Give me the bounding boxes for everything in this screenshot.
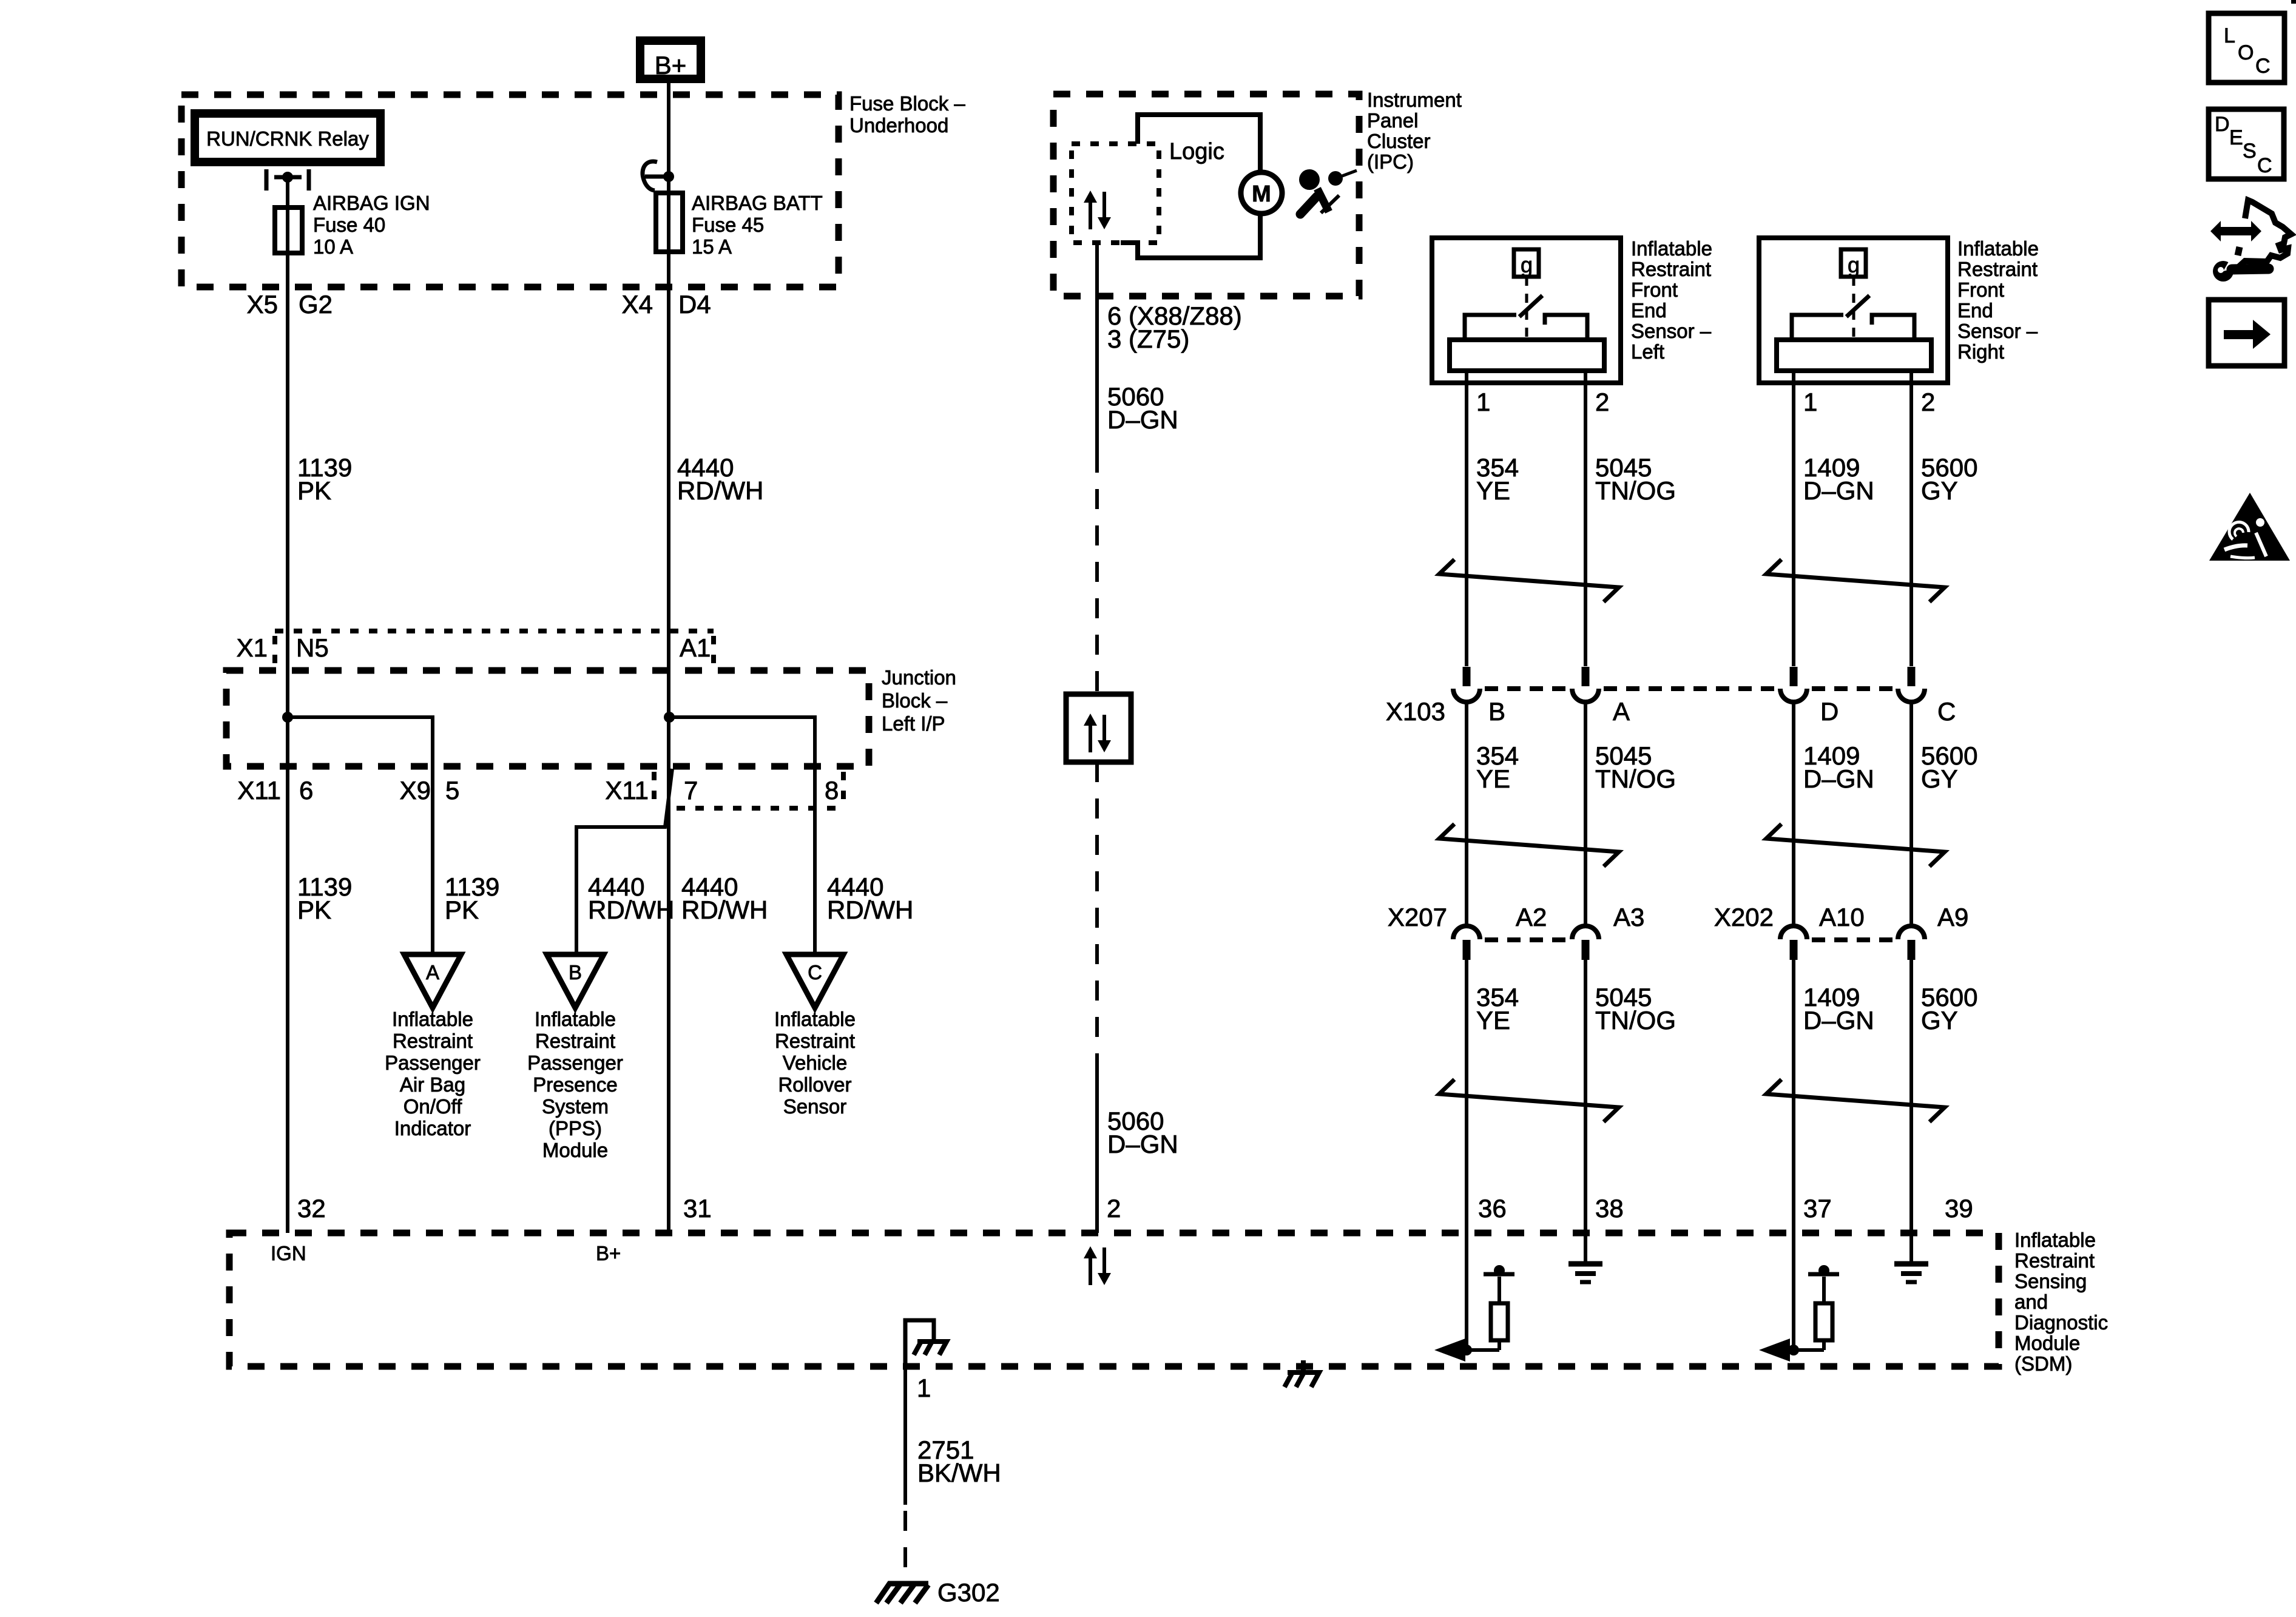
svg-text:Presence: Presence	[533, 1073, 617, 1096]
svg-text:31: 31	[683, 1194, 712, 1223]
svg-text:D–GN: D–GN	[1803, 765, 1874, 793]
svg-text:RD/WH: RD/WH	[588, 896, 674, 924]
svg-text:and: and	[2014, 1291, 2048, 1313]
svg-text:Rollover: Rollover	[778, 1073, 851, 1096]
svg-text:1: 1	[1476, 388, 1490, 416]
svg-text:Passenger: Passenger	[385, 1052, 481, 1074]
svg-text:X207: X207	[1388, 903, 1447, 931]
pin 37	[1803, 1194, 1832, 1223]
icon LOC box	[2209, 13, 2284, 83]
svg-text:A2: A2	[1516, 903, 1547, 931]
svg-text:7: 7	[684, 776, 698, 805]
twisted pair row1 left	[1439, 559, 1619, 602]
wire 1409 D-GN seg1	[1792, 371, 1795, 666]
wire 354 YE seg3	[1465, 960, 1468, 1233]
wire branch to pin 8	[669, 717, 815, 954]
logic block outline	[1121, 115, 1260, 258]
svg-text:X103: X103	[1386, 697, 1445, 726]
svg-text:M: M	[1252, 181, 1271, 207]
svg-text:End: End	[1957, 299, 1993, 322]
svg-text:RD/WH: RD/WH	[827, 896, 913, 924]
svg-text:2: 2	[1921, 388, 1935, 416]
wire label 4440 RD/WH rollover	[827, 873, 913, 924]
wire 1409 D-GN seg2	[1792, 702, 1795, 927]
connector X207 pin A2	[1453, 926, 1480, 960]
label PPS module B	[527, 1008, 623, 1161]
sensor left g-sensor box	[1514, 249, 1539, 277]
wire 354 YE seg1	[1465, 371, 1468, 666]
wire label 1409 D-GN row2	[1803, 741, 1874, 793]
pin 1	[917, 1374, 931, 1402]
off-page triangle C	[786, 954, 843, 1008]
svg-text:A: A	[1613, 697, 1630, 726]
connector X207 interface line	[1485, 937, 1567, 942]
connector X202 pin A10	[1780, 926, 1807, 960]
icon DESC box	[2209, 109, 2284, 179]
relay output contact symbol	[266, 169, 309, 191]
IPC inner connector dashed box	[1072, 144, 1159, 243]
svg-text:X5: X5	[247, 290, 278, 319]
svg-text:Restraint: Restraint	[1957, 258, 2038, 280]
serial data arrows SDM	[1084, 1246, 1111, 1285]
wire label 5060 D-GN upper	[1107, 382, 1178, 434]
node IGN	[271, 1242, 306, 1264]
wire label 5600 GY row2	[1921, 741, 1977, 793]
svg-text:D–GN: D–GN	[1107, 1130, 1178, 1158]
off-page triangle B	[547, 954, 604, 1008]
wire fuse 40 to X5	[286, 253, 289, 1233]
label X202 A10 A9	[1714, 903, 1968, 931]
svg-text:Fuse Block –: Fuse Block –	[849, 92, 965, 115]
svg-text:Logic: Logic	[1169, 139, 1224, 164]
svg-text:Underhood: Underhood	[849, 114, 948, 137]
icon forward arrow box	[2209, 300, 2284, 366]
wire label 5600 GY row3	[1921, 983, 1977, 1035]
pin 31	[683, 1194, 712, 1223]
label sensor right	[1957, 237, 2039, 363]
pin X4 D4	[622, 290, 711, 319]
pin X5 G2	[247, 290, 333, 319]
svg-text:S: S	[2243, 140, 2257, 163]
svg-text:YE: YE	[1476, 476, 1510, 505]
svg-text:On/Off: On/Off	[403, 1095, 462, 1118]
svg-text:X1: X1	[237, 633, 268, 662]
svg-text:Panel: Panel	[1367, 109, 1418, 132]
svg-text:C: C	[2257, 154, 2272, 177]
off-page triangle A	[404, 954, 461, 1008]
svg-text:Restraint: Restraint	[1631, 258, 1711, 280]
svg-text:E: E	[2229, 126, 2243, 149]
svg-text:Air Bag: Air Bag	[400, 1073, 465, 1096]
wire 5600 GY seg2	[1909, 702, 1913, 927]
connector X207 pin A3	[1572, 926, 1599, 960]
wire 2751 BK/WH	[903, 1366, 907, 1585]
sensor right switch	[1792, 277, 1914, 340]
junction block dashed box	[226, 670, 869, 766]
wire branch to X9	[288, 717, 433, 954]
wire pin 36 internal	[1465, 1233, 1468, 1350]
svg-text:B+: B+	[596, 1242, 621, 1264]
svg-text:Passenger: Passenger	[527, 1052, 623, 1074]
svg-text:g: g	[1521, 252, 1533, 277]
svg-text:G302: G302	[937, 1578, 1000, 1607]
svg-text:N5: N5	[296, 633, 329, 662]
wire label 5045 TN/OG row3	[1595, 983, 1676, 1035]
svg-text:Inflatable: Inflatable	[1631, 237, 1712, 260]
svg-text:L: L	[2224, 24, 2235, 47]
svg-text:D4: D4	[678, 290, 711, 319]
svg-text:1: 1	[1803, 388, 1817, 416]
dashed wire upper	[1095, 453, 1099, 694]
label rollover sensor C	[774, 1008, 856, 1118]
svg-text:39: 39	[1945, 1194, 1973, 1223]
svg-text:C: C	[2255, 55, 2271, 78]
svg-text:Sensing: Sensing	[2014, 1270, 2087, 1292]
twisted pair row2 left	[1439, 824, 1619, 866]
svg-text:X4: X4	[622, 290, 653, 319]
svg-text:RD/WH: RD/WH	[677, 476, 763, 505]
twisted pair row3 right	[1766, 1079, 1945, 1122]
sensor right g-sensor box	[1841, 249, 1866, 277]
sensor right pin 2	[1921, 388, 1935, 416]
connector X103 pin C	[1898, 667, 1925, 702]
wire IPC pin 6	[1095, 243, 1099, 453]
svg-text:Inflatable: Inflatable	[1957, 237, 2039, 260]
pin X1 N5	[237, 633, 329, 662]
svg-text:D–GN: D–GN	[1803, 476, 1874, 505]
svg-text:Restraint: Restraint	[393, 1030, 473, 1052]
svg-text:TN/OG: TN/OG	[1595, 765, 1676, 793]
sensor left element bar	[1450, 340, 1604, 371]
corner mark	[2291, 0, 2296, 4]
svg-text:O: O	[2238, 41, 2254, 64]
wire label 1139 PK upper	[297, 453, 352, 505]
pin 39	[1945, 1194, 1973, 1223]
node junction on B+ wire	[664, 712, 675, 723]
wire label 354 YE row3	[1476, 983, 1519, 1035]
sensor left switch	[1465, 277, 1587, 340]
svg-text:Module: Module	[2014, 1332, 2080, 1354]
connector X103 pin D	[1780, 667, 1807, 702]
wire B+ to fuse 45	[667, 83, 670, 193]
label X207 A2 A3	[1388, 903, 1644, 931]
svg-text:32: 32	[297, 1194, 326, 1223]
IPC instrument panel cluster dashed box	[1053, 94, 1359, 296]
svg-text:C: C	[808, 961, 822, 984]
wire label 1409 D-GN row3	[1803, 983, 1874, 1035]
driver circuit pin 37	[1759, 1265, 1839, 1362]
label AIRBAG BATT Fuse 45 15 A	[692, 192, 823, 258]
svg-text:Inflatable: Inflatable	[535, 1008, 616, 1030]
wire 5600 GY seg3	[1909, 960, 1913, 1233]
svg-text:Block –: Block –	[882, 689, 948, 712]
sensor left pin 2	[1595, 388, 1609, 416]
svg-text:Inflatable: Inflatable	[392, 1008, 473, 1030]
svg-text:TN/OG: TN/OG	[1595, 1006, 1676, 1035]
connector X202 pin A9	[1898, 926, 1925, 960]
svg-text:YE: YE	[1476, 765, 1510, 793]
svg-text:Left: Left	[1631, 340, 1664, 363]
fuse F40 AIRBAG IGN	[275, 208, 302, 253]
connector X103 pin B	[1453, 667, 1480, 702]
svg-text:(IPC): (IPC)	[1367, 150, 1414, 173]
wire label 4440 RD/WH upper	[677, 453, 763, 505]
svg-text:AIRBAG IGN: AIRBAG IGN	[313, 192, 430, 214]
svg-text:Inflatable: Inflatable	[2014, 1229, 2096, 1251]
svg-text:B: B	[1488, 697, 1505, 726]
ground pin 39 internal	[1894, 1233, 1928, 1282]
svg-text:Sensor: Sensor	[783, 1095, 847, 1118]
svg-text:RUN/CRNK Relay: RUN/CRNK Relay	[206, 127, 369, 150]
svg-text:GY: GY	[1921, 765, 1958, 793]
svg-text:A9: A9	[1937, 903, 1968, 931]
svg-text:Left I/P: Left I/P	[882, 712, 945, 735]
connector X103 pin A	[1572, 667, 1599, 702]
airbag warning icon	[1299, 169, 1357, 214]
sensor left box	[1432, 238, 1621, 383]
svg-text:PK: PK	[297, 476, 331, 505]
label AIRBAG IGN Fuse 40 10 A	[313, 192, 430, 258]
wire to SDM pin 2	[1095, 1059, 1099, 1233]
svg-text:38: 38	[1595, 1194, 1624, 1223]
icon caution triangle	[2209, 493, 2290, 561]
wire label 4440 RD/WH pps	[588, 873, 674, 924]
wire pin 37 internal	[1792, 1233, 1795, 1350]
icon schematic navigation	[2210, 200, 2291, 282]
svg-text:(SDM): (SDM)	[2014, 1352, 2072, 1375]
label X103 B A D C	[1386, 697, 1956, 726]
wire 5045 TN/OG seg2	[1584, 702, 1587, 927]
wire label 1139 PK branch	[445, 873, 499, 924]
wire label 354 YE row1	[1476, 453, 1519, 505]
wire label 5600 GY row1	[1921, 453, 1977, 505]
svg-text:TN/OG: TN/OG	[1595, 476, 1676, 505]
pin X11 6	[237, 776, 313, 805]
connector X202 interface line	[1812, 937, 1893, 942]
node B+	[596, 1242, 621, 1264]
connector band X11 lower dotted	[654, 772, 843, 808]
wire label 4440 RD/WH main	[681, 873, 768, 924]
svg-text:(PPS): (PPS)	[549, 1117, 602, 1139]
pin X11 7	[605, 776, 698, 805]
svg-text:A: A	[426, 961, 439, 984]
svg-text:Front: Front	[1957, 279, 2004, 301]
svg-text:End: End	[1631, 299, 1667, 322]
svg-text:PK: PK	[445, 896, 479, 924]
wire label 5045 TN/OG row2	[1595, 741, 1676, 793]
wire 354 YE seg2	[1465, 702, 1468, 927]
twisted pair row3 left	[1439, 1079, 1619, 1122]
label Junction Block - Left I/P	[882, 666, 956, 735]
pin 2	[1107, 1194, 1121, 1223]
sensor right pin 1	[1803, 388, 1817, 416]
svg-text:D–GN: D–GN	[1803, 1006, 1874, 1035]
fuse F45 AIRBAG BATT	[656, 193, 683, 252]
svg-text:D–GN: D–GN	[1107, 405, 1178, 434]
svg-text:Vehicle: Vehicle	[783, 1052, 847, 1074]
dashed wire lower	[1095, 762, 1099, 1059]
ground G302	[876, 1578, 1000, 1607]
svg-text:PK: PK	[297, 896, 331, 924]
wire relay to fuse 40	[286, 177, 289, 208]
svg-text:Sensor –: Sensor –	[1957, 320, 2038, 342]
svg-text:YE: YE	[1476, 1006, 1510, 1035]
svg-text:Restraint: Restraint	[535, 1030, 615, 1052]
pin 36	[1478, 1194, 1507, 1223]
sensor right element bar	[1777, 340, 1931, 371]
pin A1	[680, 633, 711, 662]
svg-text:BK/WH: BK/WH	[917, 1459, 1001, 1487]
svg-text:10 A: 10 A	[313, 235, 353, 258]
ground pin 38 internal	[1568, 1233, 1602, 1282]
wire label 354 YE row2	[1476, 741, 1519, 793]
svg-text:X11: X11	[605, 776, 649, 805]
svg-text:Instrument: Instrument	[1367, 89, 1462, 111]
pin 32	[297, 1194, 326, 1223]
label Fuse Block - Underhood	[849, 92, 965, 137]
svg-text:Indicator: Indicator	[394, 1117, 471, 1139]
label SDM	[2014, 1229, 2108, 1375]
relay RUN/CRNK label box	[195, 113, 380, 162]
svg-text:C: C	[1937, 697, 1956, 726]
svg-text:A3: A3	[1613, 903, 1644, 931]
pin 8	[825, 776, 839, 805]
svg-text:Fuse 40: Fuse 40	[313, 214, 385, 236]
wire 5600 GY seg1	[1909, 371, 1913, 666]
driver circuit pin 36	[1434, 1265, 1514, 1362]
in-line connector arrow box	[1066, 694, 1131, 762]
svg-text:Front: Front	[1631, 279, 1678, 301]
wire label 1409 D-GN row1	[1803, 453, 1874, 505]
svg-text:Cluster: Cluster	[1367, 130, 1431, 152]
svg-text:X11: X11	[237, 776, 281, 805]
svg-text:2: 2	[1595, 388, 1609, 416]
svg-text:A10: A10	[1819, 903, 1865, 931]
connector band X1 N5 A1	[275, 631, 714, 667]
svg-text:Right: Right	[1957, 340, 2004, 363]
svg-text:6: 6	[299, 776, 313, 805]
sensor left pin 1	[1476, 388, 1490, 416]
fuse block underhood dashed box	[181, 95, 839, 287]
svg-text:Sensor –: Sensor –	[1631, 320, 1712, 342]
svg-text:G2: G2	[299, 290, 333, 319]
wire 1409 D-GN seg3	[1792, 960, 1795, 1233]
svg-text:37: 37	[1803, 1194, 1832, 1223]
svg-text:A1: A1	[680, 633, 711, 662]
svg-text:Module: Module	[542, 1139, 608, 1161]
svg-text:GY: GY	[1921, 476, 1958, 505]
twisted pair row2 right	[1766, 824, 1945, 866]
svg-text:B+: B+	[655, 51, 687, 79]
svg-text:RD/WH: RD/WH	[681, 896, 768, 924]
svg-text:IGN: IGN	[271, 1242, 306, 1264]
svg-text:Restraint: Restraint	[2014, 1249, 2095, 1272]
wire fuse 45 to X4	[667, 252, 670, 1233]
wire label 1139 PK left	[297, 873, 352, 924]
svg-text:Diagnostic: Diagnostic	[2014, 1311, 2108, 1334]
pin X9 5	[400, 776, 460, 805]
svg-text:15 A: 15 A	[692, 235, 732, 258]
label Logic	[1169, 139, 1224, 164]
serial data arrows IPC	[1084, 191, 1111, 229]
svg-text:System: System	[542, 1095, 609, 1118]
chassis ground internal SDM	[905, 1320, 947, 1366]
svg-text:1: 1	[917, 1374, 931, 1402]
node junction on IGN wire	[282, 712, 293, 723]
wire label 5060 D-GN lower	[1107, 1107, 1178, 1158]
connector X103 interface line	[1485, 686, 1893, 691]
chassis ground on SDM edge	[1285, 1360, 1319, 1387]
svg-text:3 (Z75): 3 (Z75)	[1107, 325, 1189, 353]
svg-text:Inflatable: Inflatable	[774, 1008, 856, 1030]
label Instrument Panel Cluster (IPC)	[1367, 89, 1462, 173]
svg-text:X9: X9	[400, 776, 431, 805]
twisted pair row1 right	[1766, 559, 1945, 602]
svg-text:36: 36	[1478, 1194, 1507, 1223]
B+ power symbol	[640, 41, 701, 79]
pin 6 (X88/Z88) 3 (Z75)	[1107, 302, 1242, 353]
wire label 5045 TN/OG row1	[1595, 453, 1676, 505]
sensor right box	[1759, 238, 1948, 383]
wire 5045 TN/OG seg3	[1584, 960, 1587, 1233]
fusible link hook symbol	[643, 161, 674, 191]
svg-text:8: 8	[825, 776, 839, 805]
svg-text:AIRBAG BATT: AIRBAG BATT	[692, 192, 823, 214]
pin 38	[1595, 1194, 1624, 1223]
svg-text:B: B	[569, 961, 582, 984]
wire label 2751 BK/WH	[917, 1436, 1001, 1487]
label indicator A	[385, 1008, 481, 1139]
svg-text:GY: GY	[1921, 1006, 1958, 1035]
motor M indicator	[1241, 172, 1282, 214]
svg-text:Junction: Junction	[882, 666, 956, 689]
wire 5045 TN/OG seg1	[1584, 371, 1587, 666]
SDM dashed box	[229, 1233, 1999, 1366]
svg-text:5: 5	[445, 776, 459, 805]
svg-text:g: g	[1848, 252, 1860, 277]
svg-text:Fuse 45: Fuse 45	[692, 214, 764, 236]
svg-text:2: 2	[1107, 1194, 1121, 1223]
wire PPS branch diagonal	[576, 769, 672, 954]
svg-text:D: D	[1820, 697, 1838, 726]
svg-text:D: D	[2215, 113, 2230, 136]
label sensor left	[1631, 237, 1712, 363]
svg-text:Restraint: Restraint	[775, 1030, 855, 1052]
svg-text:X202: X202	[1714, 903, 1774, 931]
